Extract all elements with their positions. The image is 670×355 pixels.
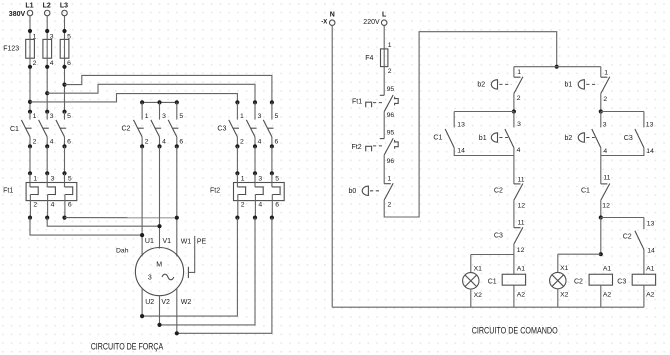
junction	[28, 110, 32, 114]
svg-text:b1: b1	[479, 135, 487, 142]
svg-text:1: 1	[240, 113, 244, 120]
b1 actuator link	[499, 137, 508, 139]
svg-text:3: 3	[603, 122, 607, 129]
node L1 supply terminal	[25, 2, 33, 15]
svg-text:A1: A1	[603, 265, 612, 272]
svg-text:V2: V2	[161, 299, 170, 306]
svg-text:5: 5	[179, 113, 183, 120]
contactor C1 pole 1	[21, 112, 36, 147]
svg-text:1: 1	[33, 33, 37, 40]
wire C2 to C3 interlock	[513, 200, 515, 228]
interlock contact C2 11-12	[514, 184, 523, 201]
coil contactor C1 A1-A2	[502, 274, 525, 285]
wire feed to b2 branch	[514, 66, 557, 68]
svg-text:11: 11	[518, 176, 525, 183]
svg-text:A2: A2	[646, 292, 655, 299]
svg-text:3: 3	[148, 274, 152, 281]
svg-text:X2: X2	[560, 292, 569, 299]
wire N rail	[331, 26, 333, 308]
fuse F3	[60, 33, 71, 67]
junction	[599, 215, 603, 219]
wire lamp h2 to rail	[557, 289, 559, 308]
svg-text:3: 3	[258, 175, 262, 182]
wire C2 aux to coil C3	[643, 250, 645, 275]
svg-text:U1: U1	[145, 238, 154, 245]
svg-text:6: 6	[68, 202, 72, 209]
b0 actuator link	[370, 190, 382, 192]
wire C2 pole1 to motor U1	[141, 146, 143, 256]
junction feed node	[555, 65, 559, 69]
wire b1 to C2 interlock	[513, 148, 515, 184]
svg-text:4: 4	[50, 139, 54, 146]
svg-text:A2: A2	[603, 292, 612, 299]
svg-text:6: 6	[179, 139, 183, 146]
node U1	[140, 233, 144, 237]
junction	[270, 216, 274, 220]
wire L3 bus to C3	[65, 75, 272, 102]
svg-text:2: 2	[388, 68, 392, 75]
svg-text:F4: F4	[365, 55, 373, 62]
svg-text:W2: W2	[181, 299, 192, 306]
svg-text:1: 1	[517, 69, 521, 76]
wire b0 to branch feed riser	[384, 32, 557, 217]
motor M 3~ Dahlander	[135, 248, 183, 296]
svg-text:A1: A1	[646, 265, 655, 272]
wire C1 to Ft1 pole 1	[29, 146, 31, 173]
contactor C2 pole 3	[168, 102, 183, 146]
overload relay Ft1 element 1	[30, 173, 38, 217]
wire Ft1 L2 to motor V1	[47, 218, 159, 227]
svg-text:4: 4	[603, 148, 607, 155]
svg-text:4: 4	[51, 202, 55, 209]
wire motor W2 to Ft2	[177, 218, 272, 334]
svg-text:11: 11	[603, 175, 610, 182]
Ft2 release hook	[395, 140, 399, 149]
svg-text:C2: C2	[623, 234, 632, 241]
svg-text:N: N	[330, 11, 335, 18]
node L3 supply terminal	[60, 2, 68, 15]
pushbutton b2 contact 1-2	[514, 77, 523, 94]
svg-text:14: 14	[647, 248, 655, 255]
node W2	[175, 331, 179, 335]
svg-text:4: 4	[50, 60, 54, 67]
wire C1 to node	[600, 200, 602, 217]
pushbutton b1 contact 1-2	[601, 77, 610, 94]
svg-text:6: 6	[275, 139, 279, 146]
wire fuse F1 to contactor C1	[29, 58, 31, 111]
junction	[62, 144, 66, 148]
fuse F1	[26, 33, 37, 67]
svg-text:C3: C3	[217, 126, 226, 133]
junction	[28, 29, 32, 33]
wire C2 aux top stub	[643, 218, 645, 230]
node L supply terminal	[381, 11, 387, 25]
svg-text:3: 3	[517, 121, 521, 128]
wire L2 terminal to fuse	[46, 16, 48, 40]
svg-text:3: 3	[258, 113, 262, 120]
svg-text:4: 4	[517, 147, 521, 154]
junction	[270, 100, 274, 104]
wire b2 top stub	[513, 67, 515, 78]
svg-text:14: 14	[646, 148, 654, 155]
svg-text:5: 5	[68, 175, 72, 182]
wire C1 node to lamp node	[600, 218, 602, 255]
wire Ft1 L3 to motor W1	[65, 217, 177, 219]
junction L2 tap	[45, 91, 49, 95]
overload contact Ft2 95-96	[380, 138, 393, 155]
lamp h1 X1-X2	[463, 273, 479, 289]
svg-text:6: 6	[67, 60, 71, 67]
junction	[140, 144, 144, 148]
overload relay Ft1 element 2	[47, 173, 55, 217]
svg-text:U2: U2	[145, 299, 154, 306]
overload relay Ft2 element 1	[237, 173, 245, 217]
wire N bottom rail	[332, 306, 644, 308]
svg-text:4: 4	[258, 202, 262, 209]
svg-text:3: 3	[51, 175, 55, 182]
svg-text:PE: PE	[197, 239, 207, 246]
svg-text:L: L	[382, 11, 387, 18]
svg-text:C3: C3	[494, 233, 503, 240]
junction	[45, 144, 49, 148]
node V1	[157, 224, 161, 228]
svg-text:X1: X1	[560, 265, 569, 272]
svg-text:1: 1	[33, 175, 37, 182]
wire lamp h1 stub	[470, 255, 472, 273]
wire b2 to C1 interlock	[600, 148, 602, 184]
svg-text:2: 2	[388, 202, 392, 209]
wire C3 aux top stub	[643, 112, 645, 128]
pushbutton b2 head	[491, 79, 497, 89]
junction	[157, 100, 161, 104]
svg-text:V1: V1	[163, 238, 172, 245]
wire lamp h2 tap	[558, 253, 601, 255]
svg-text:5: 5	[67, 33, 71, 40]
junction	[157, 144, 161, 148]
pushbutton b2 head	[578, 132, 584, 142]
overload relay Ft1	[3, 183, 77, 201]
svg-text:2: 2	[241, 202, 245, 209]
svg-text:12: 12	[518, 202, 526, 209]
wire C2 pole2 to motor V1	[159, 146, 161, 248]
wire b1 top stub	[600, 67, 602, 78]
svg-text:6: 6	[67, 139, 71, 146]
wire C3 aux bottom	[601, 148, 644, 156]
wire coil C2 to rail	[600, 285, 602, 307]
contactor C3 pole 3	[263, 102, 278, 146]
junction	[45, 171, 49, 175]
pushbutton b2 contact 3-4	[592, 129, 601, 148]
svg-text:380V: 380V	[9, 11, 26, 18]
junction L3 tap	[62, 83, 66, 87]
svg-text:2: 2	[33, 60, 37, 67]
wire C1 to Ft1 pole 2	[46, 146, 48, 173]
wire Ft1 to Ft2 contact	[383, 112, 385, 139]
node W1	[175, 216, 179, 220]
coil contactor C3 A1-A2	[632, 274, 655, 285]
node L2 supply terminal	[43, 2, 51, 15]
wire b1 to node	[600, 93, 602, 111]
node N supply terminal	[329, 11, 335, 25]
svg-text:3: 3	[162, 113, 166, 120]
junction	[62, 110, 66, 114]
svg-text:5: 5	[275, 113, 279, 120]
svg-text:5: 5	[275, 175, 279, 182]
svg-text:5: 5	[67, 113, 71, 120]
Ft1 release hook	[395, 97, 399, 106]
lamp h2 X1-X2	[550, 272, 566, 288]
svg-text:X1: X1	[474, 265, 483, 272]
junction	[253, 144, 257, 148]
wire F4 to Ft1 contact	[383, 67, 385, 96]
junction	[512, 109, 516, 113]
svg-text:2: 2	[145, 139, 149, 146]
svg-text:11: 11	[518, 219, 525, 226]
junction	[62, 65, 66, 69]
svg-text:A2: A2	[517, 292, 526, 299]
contactor C3 pole 2	[246, 102, 261, 146]
junction	[45, 29, 49, 33]
contactor C2 pole 2	[151, 102, 166, 146]
svg-text:1: 1	[241, 175, 245, 182]
svg-text:C2: C2	[122, 126, 131, 133]
wire L1 terminal to fuse	[29, 16, 31, 40]
wire C1 aux bottom	[454, 148, 514, 156]
svg-text:C3: C3	[617, 278, 626, 285]
svg-text:C1: C1	[10, 126, 19, 133]
junction	[45, 216, 49, 220]
junction	[45, 65, 49, 69]
Ft1 actuator link	[373, 102, 383, 104]
svg-text:1: 1	[33, 113, 37, 120]
node U2	[140, 314, 144, 318]
interlock contact C3 11-12	[514, 227, 523, 244]
wire C3 to coil C1	[513, 244, 515, 274]
contactor C2 pole 1	[134, 102, 149, 146]
svg-text:6: 6	[275, 202, 279, 209]
junction	[62, 171, 66, 175]
junction	[175, 100, 179, 104]
svg-text:96: 96	[387, 112, 395, 119]
fuse F2	[43, 33, 54, 67]
svg-text:C2: C2	[494, 188, 503, 195]
junction	[140, 100, 144, 104]
svg-text:b2: b2	[477, 82, 485, 89]
junction	[175, 144, 179, 148]
svg-text:CIRCUITO DE COMANDO: CIRCUITO DE COMANDO	[472, 325, 558, 335]
wire C2 pole3 to motor W1	[176, 146, 178, 256]
svg-text:1: 1	[604, 70, 608, 77]
svg-text:1: 1	[145, 113, 149, 120]
svg-text:220V: 220V	[363, 19, 380, 26]
wire lamp h1 tap	[471, 254, 514, 256]
svg-text:1: 1	[388, 175, 392, 182]
svg-text:C3: C3	[624, 135, 633, 142]
svg-text:C2: C2	[574, 278, 583, 285]
svg-text:F123: F123	[3, 45, 19, 52]
svg-text:M: M	[156, 261, 162, 268]
wire Ft1 L1 to motor U1	[30, 218, 142, 236]
wire motor V2 to Ft2	[160, 218, 256, 325]
junction	[28, 171, 32, 175]
svg-text:C1: C1	[488, 278, 497, 285]
fuse F4	[365, 42, 392, 75]
svg-text:W1: W1	[181, 239, 192, 246]
svg-text:2: 2	[240, 139, 244, 146]
pushbutton b1 head	[578, 79, 584, 89]
svg-text:2: 2	[517, 95, 521, 102]
wire b2 top stub	[600, 112, 602, 128]
svg-text:Ft2: Ft2	[352, 144, 362, 151]
svg-text:Ft2: Ft2	[210, 187, 220, 194]
wire L3 terminal to fuse	[64, 16, 66, 40]
wire node to C2 aux branch	[601, 217, 644, 219]
svg-text:3: 3	[50, 33, 54, 40]
svg-text:14: 14	[457, 147, 465, 154]
coil contactor C2 A1-A2	[589, 274, 612, 285]
junction L1 tap	[28, 100, 32, 104]
svg-text:4: 4	[162, 139, 166, 146]
b1 actuator link	[586, 83, 598, 85]
wire coil C1 to rail	[513, 285, 515, 307]
junction	[235, 100, 239, 104]
node V2	[157, 323, 161, 327]
wire coil C3 to rail	[643, 285, 645, 307]
contactor C1 pole 2	[39, 112, 54, 147]
svg-text:13: 13	[457, 122, 465, 129]
pushbutton b0 contact 1-2	[384, 183, 393, 200]
ground PE connection	[188, 236, 206, 278]
svg-text:12: 12	[517, 247, 525, 254]
interlock contact C1 11-12	[601, 184, 610, 201]
junction	[599, 252, 603, 256]
auxiliary contact C1 13-14	[445, 129, 454, 148]
overload relay Ft2	[210, 183, 284, 201]
svg-text:Ft1: Ft1	[352, 99, 362, 106]
junction	[62, 216, 66, 220]
junction	[253, 100, 257, 104]
svg-text:95: 95	[387, 130, 395, 137]
contactor C1 pole 3	[56, 112, 71, 147]
wire L to fuse F4	[383, 26, 385, 49]
wire C3 to Ft2 pole 2	[254, 146, 256, 173]
svg-text:Dah: Dah	[116, 247, 129, 254]
svg-text:13: 13	[647, 220, 655, 227]
svg-text:A1: A1	[517, 265, 526, 272]
svg-text:12: 12	[602, 203, 610, 210]
pushbutton b1 contact 3-4	[505, 129, 514, 148]
svg-text:C1: C1	[433, 134, 442, 141]
junction	[253, 216, 257, 220]
junction	[235, 171, 239, 175]
wire lamp h2 stub	[557, 254, 559, 273]
pushbutton b0 head	[362, 186, 368, 196]
auxiliary contact C3 13-14	[635, 129, 644, 148]
svg-text:X2: X2	[474, 292, 483, 299]
wire L1 bus to C3	[30, 94, 237, 103]
junction	[599, 109, 603, 113]
svg-text:L2: L2	[43, 2, 51, 9]
svg-text:L3: L3	[60, 2, 68, 9]
junction	[45, 110, 49, 114]
svg-text:1: 1	[388, 42, 392, 49]
overload relay Ft1 element 3	[65, 173, 73, 217]
svg-text:2: 2	[33, 139, 37, 146]
Ft2 thermal symbol	[366, 146, 372, 151]
svg-text:2: 2	[33, 202, 37, 209]
pushbutton b1 head	[491, 132, 497, 142]
wire C3 to Ft2 pole 1	[236, 146, 238, 173]
svg-text:2: 2	[603, 96, 607, 103]
wire L2 bus to C3	[47, 84, 255, 102]
junction	[28, 216, 32, 220]
wire C1 to Ft1 pole 3	[64, 146, 66, 173]
svg-text:CIRCUITO DE FORÇA: CIRCUITO DE FORÇA	[91, 342, 164, 352]
svg-text:L1: L1	[25, 2, 33, 9]
svg-text:C1: C1	[581, 188, 590, 195]
wire fuse F3 to contactor C1	[64, 58, 66, 111]
overload contact Ft1 95-96	[380, 95, 393, 112]
overload relay Ft2 element 3	[272, 173, 280, 217]
wire C3 to Ft2 pole 3	[271, 146, 273, 173]
svg-text:-X: -X	[321, 20, 327, 26]
svg-text:b1: b1	[565, 82, 573, 89]
wire feed to b1 branch	[557, 66, 601, 68]
wire node to C1 aux branch	[454, 111, 514, 113]
auxiliary contact C2 13-14	[635, 231, 644, 250]
contactor C3 pole 1	[229, 102, 244, 146]
Ft2 actuator link	[373, 145, 383, 147]
b2 actuator link	[499, 83, 511, 85]
node star bridge of C2	[142, 101, 177, 103]
svg-text:96: 96	[387, 158, 395, 165]
junction	[270, 144, 274, 148]
wire Ft2 to pushbutton b0	[383, 155, 385, 184]
wire lamp h1 to rail	[470, 289, 472, 308]
svg-text:4: 4	[258, 139, 262, 146]
junction	[28, 65, 32, 69]
wire node to C3 aux branch	[601, 111, 644, 113]
svg-text:Ft1: Ft1	[3, 187, 13, 194]
junction	[235, 216, 239, 220]
b2 actuator link	[586, 137, 595, 139]
overload relay Ft2 element 2	[255, 173, 263, 217]
svg-text:b0: b0	[349, 188, 357, 195]
wire C1 aux top stub	[453, 112, 455, 128]
svg-text:13: 13	[646, 122, 654, 129]
wire motor U2 to Ft2	[142, 218, 237, 317]
wire fuse F2 to contactor C1	[46, 58, 48, 111]
Ft1 thermal symbol	[366, 102, 372, 107]
junction	[28, 144, 32, 148]
wire b1 top stub	[513, 112, 515, 128]
wire b2 to node	[513, 93, 515, 111]
junction	[253, 171, 257, 175]
svg-text:95: 95	[387, 86, 395, 93]
junction	[62, 29, 66, 33]
junction	[270, 171, 274, 175]
svg-text:3: 3	[50, 113, 54, 120]
svg-text:b2: b2	[565, 135, 573, 142]
junction	[235, 144, 239, 148]
